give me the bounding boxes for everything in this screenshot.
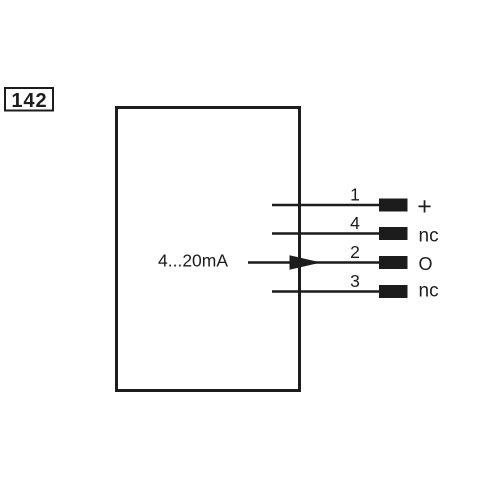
- wire pin 2: [248, 261, 380, 264]
- pin terminal 2: [379, 256, 408, 269]
- pin terminal 1: [379, 199, 408, 212]
- svg-text:nc: nc: [419, 281, 439, 302]
- svg-text:1: 1: [350, 185, 360, 205]
- wire pin 3: [272, 290, 380, 293]
- svg-text:+: +: [417, 192, 432, 220]
- pin terminal 4: [379, 227, 408, 240]
- figure number box 142: [5, 88, 53, 111]
- svg-text:O: O: [419, 254, 433, 274]
- svg-text:nc: nc: [419, 226, 439, 247]
- current flow arrowhead on wire 2: [290, 255, 322, 270]
- svg-text:142: 142: [11, 90, 47, 112]
- wire pin 4: [272, 232, 380, 235]
- svg-text:3: 3: [350, 271, 360, 291]
- device body rectangle: [117, 108, 300, 391]
- svg-text:4...20mA: 4...20mA: [158, 251, 228, 271]
- svg-text:4: 4: [350, 213, 360, 233]
- wire pin 1: [272, 204, 380, 207]
- pin terminal 3: [379, 285, 408, 298]
- svg-text:2: 2: [350, 242, 360, 262]
